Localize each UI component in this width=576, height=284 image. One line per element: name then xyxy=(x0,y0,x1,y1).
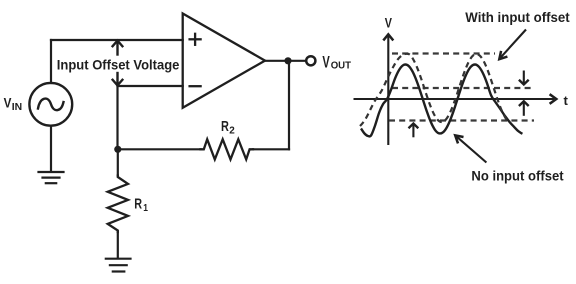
t axis xyxy=(354,94,557,104)
sine curve: with input offset (dashed) xyxy=(360,54,510,126)
wire: inverting input down to node A xyxy=(116,86,118,149)
pointer arrow: No input offset xyxy=(455,135,486,162)
wire: output node down to feedback xyxy=(288,61,290,150)
source VIN (AC source symbol) xyxy=(29,83,72,126)
dashed line: offset peak level xyxy=(392,52,495,54)
svg-text:IN: IN xyxy=(12,102,22,113)
pointer arrow: With input offset xyxy=(499,30,526,60)
op-amp U1 xyxy=(183,14,265,108)
label VOUT xyxy=(322,53,351,71)
svg-text:V: V xyxy=(4,95,12,111)
ground (below VIN) xyxy=(39,172,64,183)
wire: node A to R2 (left feedback segment) xyxy=(118,148,201,150)
ground (below R1) xyxy=(106,259,131,272)
svg-text:R: R xyxy=(134,197,142,213)
V axis xyxy=(383,34,393,145)
op-amp - pin label xyxy=(190,85,201,87)
label VIN xyxy=(4,95,23,114)
offset indicator arrow (down, above centerline) xyxy=(519,71,529,85)
resistor R1 xyxy=(108,176,128,233)
wire: op-amp output xyxy=(265,60,305,62)
junction dot at output node xyxy=(284,57,291,64)
label R2 xyxy=(221,119,235,136)
wire: Vin to op-amp non-inverting input (top horizontal) xyxy=(51,39,183,41)
svg-text:No input offset: No input offset xyxy=(471,168,564,183)
wire: R1 to ground xyxy=(117,232,119,258)
wire: Vin source down to ground xyxy=(50,126,52,172)
svg-text:R: R xyxy=(221,119,229,135)
svg-text:2: 2 xyxy=(229,124,235,136)
op-amp + pin label xyxy=(190,34,201,45)
label R1 xyxy=(134,197,148,214)
svg-text:V: V xyxy=(385,16,393,31)
wire: Vin source up to top wire xyxy=(50,40,52,83)
sine curve: no input offset (solid) xyxy=(361,65,523,137)
output terminal (open circle) xyxy=(306,56,315,65)
dashed line: offset trough level xyxy=(389,119,534,121)
svg-text:1: 1 xyxy=(143,202,148,214)
offset indicator arrow (up, below axis) xyxy=(519,101,529,116)
svg-text:V: V xyxy=(322,53,330,71)
input offset voltage double arrow xyxy=(113,41,123,86)
resistor R2 xyxy=(201,139,254,159)
wire: feedback right segment (R2 to output) xyxy=(253,148,289,150)
wire: node A down to R1 xyxy=(117,149,119,175)
svg-text:With input offset: With input offset xyxy=(465,10,570,25)
offset indicator arrow (up, below trough line) xyxy=(409,124,419,138)
svg-text:Input Offset Voltage: Input Offset Voltage xyxy=(57,57,180,73)
node A junction dot xyxy=(114,146,121,153)
svg-text:OUT: OUT xyxy=(331,60,352,72)
wire: op-amp inverting input (horizontal) xyxy=(118,85,183,87)
dashed line: offset centerline xyxy=(392,87,534,89)
